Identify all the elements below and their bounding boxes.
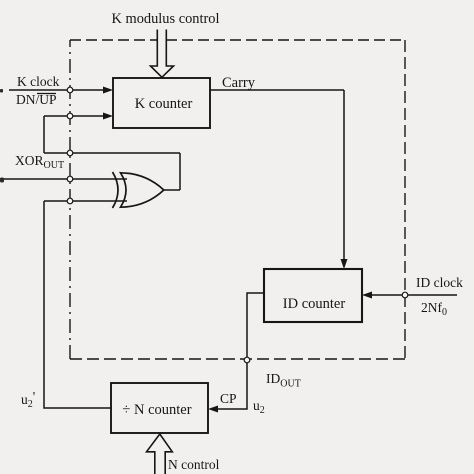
wire: XOR input B [44, 200, 127, 202]
arrowhead CP into N counter right [208, 406, 218, 413]
arrowhead into ID counter right [362, 292, 372, 299]
edge fragment near XOR input A [0, 178, 4, 183]
ID counter U2 [264, 269, 362, 322]
wire: carry drop to ID counter [343, 90, 345, 264]
svg-text:DN/UP: DN/UP [16, 92, 57, 107]
wire: ID_OUT from ID counter left [213, 293, 264, 409]
K counter U1 [113, 78, 210, 128]
wire: XOR input A from left edge [0, 178, 127, 180]
arrowhead into K counter pin 2 [103, 113, 113, 120]
svg-text:K counter: K counter [135, 96, 193, 112]
node on boundary: ID clock [402, 292, 408, 298]
dashed boundary box top [70, 39, 405, 41]
overline on UP [37, 93, 56, 95]
arrowhead into K counter pin 1 [103, 87, 113, 94]
svg-text:ID clock: ID clock [416, 275, 463, 290]
svg-text:K clock: K clock [17, 74, 60, 89]
node on boundary: XOR input B [67, 198, 73, 204]
edge fragment near K clock [0, 89, 3, 93]
divide-by-N counter U3 [111, 383, 208, 433]
svg-text:K modulus control: K modulus control [112, 11, 220, 27]
wire: vertical link DN/UP to XOR_OUT [43, 116, 45, 153]
K modulus control hollow arrow [151, 30, 174, 78]
svg-text:CP: CP [220, 391, 237, 406]
dashed boundary box left [69, 40, 71, 359]
wire: DN/UP input [44, 115, 108, 117]
dashed boundary box right [404, 40, 406, 359]
node on boundary: DN/UP [67, 113, 73, 119]
wire: u2' feedback from N counter left [44, 201, 111, 408]
XOR gate G1 [113, 172, 164, 208]
wire: K clock input [9, 89, 108, 91]
svg-text:Carry: Carry [222, 75, 256, 91]
svg-text:N control: N control [168, 457, 220, 472]
dashed boundary box bottom [70, 358, 405, 360]
node on boundary: K clock [67, 87, 73, 93]
wire: XOR_OUT horizontal [44, 152, 180, 154]
wire: carry line [210, 89, 344, 91]
node on boundary: XOR_OUT [67, 150, 73, 156]
N control hollow arrow [147, 434, 173, 474]
arrowhead into ID counter top [341, 259, 348, 269]
wire: XOR output riser [179, 153, 181, 190]
node on boundary: XOR input A [67, 176, 73, 182]
wire: XOR output stub [163, 189, 180, 191]
svg-text:÷ N counter: ÷ N counter [122, 402, 191, 418]
node on boundary: ID_OUT [244, 357, 250, 363]
svg-text:ID counter: ID counter [283, 296, 346, 312]
wire: ID clock input [367, 294, 457, 296]
